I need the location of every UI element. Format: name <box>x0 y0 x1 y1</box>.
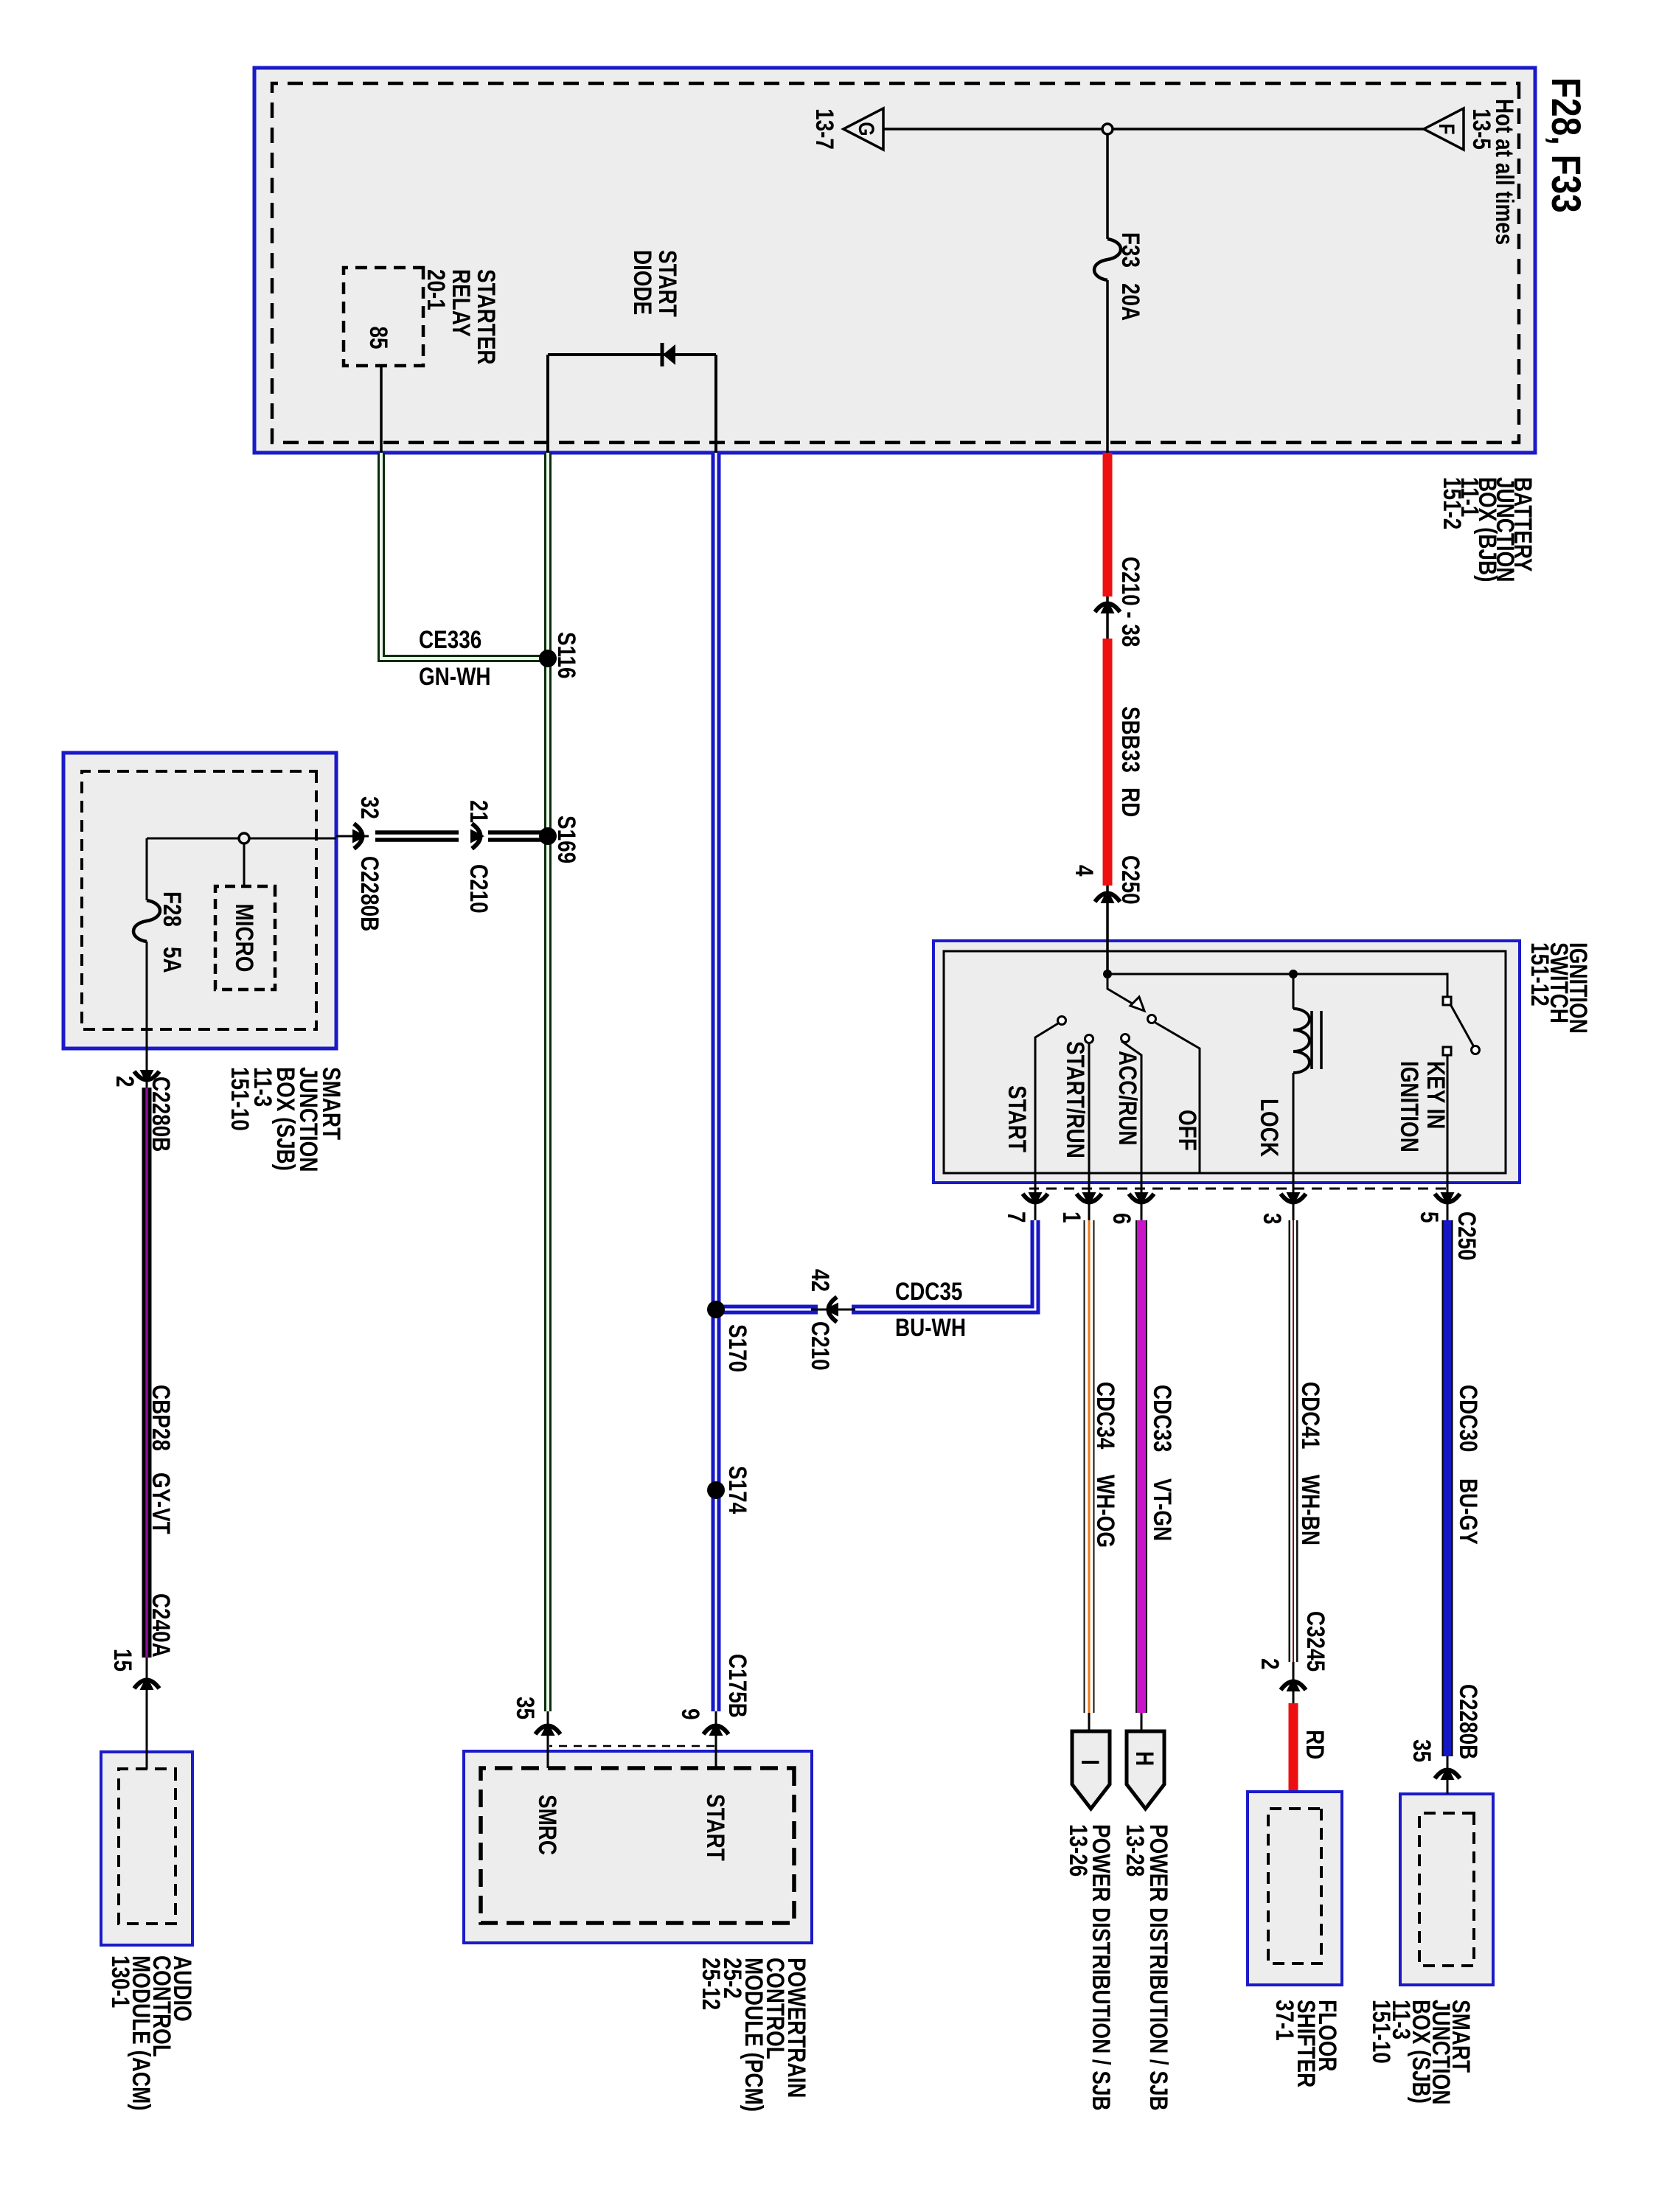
wire: junction to fuse F33 <box>1106 134 1109 239</box>
connector arrow pin 1 <box>1077 1192 1102 1206</box>
svg-text:5A: 5A <box>158 947 186 973</box>
lock coil <box>1293 974 1295 1009</box>
wire CDC41 WH-BN: ignition pin 3 to floor shifter <box>1289 1220 1298 1703</box>
off-page connector I <box>1072 1731 1110 1809</box>
svg-text:25-12: 25-12 <box>697 1958 725 2010</box>
wire: lock coil to pin 3 <box>1293 1073 1295 1220</box>
connector arrow 32 C2280B <box>352 824 366 849</box>
svg-text:START: START <box>653 250 681 317</box>
svg-text:15: 15 <box>108 1649 136 1672</box>
svg-text:IGNITION: IGNITION <box>1395 1061 1423 1152</box>
svg-text:CDC35: CDC35 <box>895 1277 962 1305</box>
svg-text:F28: F28 <box>158 891 186 927</box>
dashed connector boundary C175B at PCM <box>549 1745 714 1747</box>
connector arrow pin 2 C2280B <box>134 1070 159 1084</box>
svg-text:CDC41: CDC41 <box>1296 1382 1324 1449</box>
wire CDC33 VT-GN: ignition pin 6 to power distribution H <box>1135 1220 1147 1731</box>
label FLOOR SHIFTER 37-1 <box>1270 2000 1341 2087</box>
svg-text:C210: C210 <box>465 864 493 914</box>
label POWERTRAIN CONTROL MODULE (PCM) 25-2 25-12 <box>697 1958 810 2112</box>
svg-text:13-28: 13-28 <box>1121 1824 1149 1877</box>
wire CDC34 WH-OG: ignition pin 1 to power distribution I <box>1084 1220 1095 1731</box>
wire: starter relay pin 85 to BJB edge <box>380 366 383 453</box>
svg-text:C3245: C3245 <box>1301 1611 1329 1672</box>
svg-text:85: 85 <box>364 326 392 349</box>
svg-text:LOCK: LOCK <box>1255 1099 1283 1157</box>
svg-text:C2280B: C2280B <box>1454 1684 1482 1759</box>
connector C210 pin 42 on CDC35 <box>824 1297 838 1322</box>
svg-text:I: I <box>1076 1759 1104 1765</box>
svg-text:ACC/RUN: ACC/RUN <box>1113 1051 1141 1145</box>
connector arrow pin 3 <box>1281 1192 1306 1206</box>
svg-text:1: 1 <box>1057 1211 1085 1223</box>
switch wiper arm <box>1107 974 1138 1007</box>
svg-text:C175B: C175B <box>723 1654 751 1718</box>
svg-text:20-1: 20-1 <box>422 269 450 310</box>
svg-text:151-10: 151-10 <box>226 1067 254 1131</box>
svg-text:7: 7 <box>1002 1211 1030 1223</box>
connector C250 dashed boundary at ignition switch <box>1029 1188 1446 1190</box>
wire CE336 GN-WH: starter relay branch <box>381 453 548 658</box>
wire: START/RUN contact to pin 1 <box>1088 1044 1091 1220</box>
svg-text:35: 35 <box>511 1697 539 1719</box>
powertrain control module PCM box <box>464 1751 812 1943</box>
connector arrow 21 C210 <box>470 824 484 849</box>
fuse F28 5A <box>133 900 160 942</box>
start diode branch wires inside BJB <box>548 355 716 453</box>
svg-text:13-7: 13-7 <box>810 108 838 150</box>
contact START/RUN <box>1085 1035 1093 1043</box>
svg-text:START: START <box>701 1794 729 1861</box>
svg-text:3: 3 <box>1258 1213 1286 1225</box>
label STARTER RELAY 20-1 <box>422 269 500 365</box>
svg-text:42: 42 <box>806 1269 834 1292</box>
svg-text:4: 4 <box>1070 865 1098 877</box>
svg-text:WH-BN: WH-BN <box>1296 1475 1324 1545</box>
connector C250 pin 4 at ignition switch <box>1095 889 1120 903</box>
svg-text:GN-WH: GN-WH <box>419 662 491 690</box>
wire CBP28 GY-VT: SJB to ACM <box>142 1088 152 1769</box>
svg-text:F33: F33 <box>1116 232 1144 268</box>
svg-text:C240A: C240A <box>147 1593 175 1658</box>
svg-text:5: 5 <box>1415 1211 1443 1223</box>
svg-text:C250: C250 <box>1116 855 1144 905</box>
connector triangle F 13-5 <box>1424 108 1496 150</box>
svg-text:H: H <box>1130 1751 1158 1766</box>
svg-text:C250: C250 <box>1453 1211 1481 1261</box>
wire: junction to fuse F28 <box>146 838 148 900</box>
node S169 <box>539 827 557 845</box>
svg-text:151-10: 151-10 <box>1367 2000 1395 2064</box>
node S174 <box>707 1481 725 1499</box>
svg-text:SBB33: SBB33 <box>1116 706 1144 773</box>
svg-text:C2280B: C2280B <box>355 856 383 931</box>
smart junction box SJB (left, with micro) <box>63 753 336 1048</box>
label SMART JUNCTION BOX (SJB) 11-3 151-10 (right) <box>1367 2000 1475 2104</box>
wire: input bus from pin 4 junction up to KEY IN IGNITION <box>1107 974 1447 1001</box>
svg-text:6: 6 <box>1107 1213 1135 1225</box>
wire: START contact to pin 7 <box>1035 1023 1058 1220</box>
svg-text:S170: S170 <box>723 1324 751 1372</box>
node S116 <box>539 650 557 667</box>
label START DIODE <box>628 250 681 317</box>
floor shifter box <box>1248 1792 1342 1985</box>
svg-text:RD: RD <box>1301 1730 1329 1759</box>
svg-text:37-1: 37-1 <box>1270 2000 1298 2041</box>
svg-text:151-2: 151-2 <box>1438 477 1466 529</box>
contact OFF <box>1148 1015 1156 1023</box>
svg-text:RD: RD <box>1116 787 1144 817</box>
svg-text:WH-OG: WH-OG <box>1091 1475 1119 1548</box>
connector arrow pin 5 <box>1435 1192 1460 1206</box>
wire CDC30 BU-GY: ignition pin 5 to SJB <box>1442 1220 1453 1794</box>
battery junction box BJB <box>254 68 1535 453</box>
wire: key-in switch to pin 5 <box>1447 1055 1449 1220</box>
connector arrow PCM pin 9 <box>703 1722 728 1736</box>
audio control module ACM box <box>101 1752 192 1945</box>
wire RD: to floor shifter <box>1289 1703 1298 1790</box>
wire: OFF stub <box>1155 1023 1200 1173</box>
svg-text:CDC30: CDC30 <box>1454 1385 1482 1452</box>
svg-text:DIODE: DIODE <box>628 250 656 315</box>
label BATTERY JUNCTION BOX (BJB) 11-1 151-2 <box>1438 477 1537 582</box>
wire CDC35 BU-WH: BJB start diode to S170/S174 to PCM pin 9 <box>712 453 721 1768</box>
svg-text:OFF: OFF <box>1173 1110 1201 1151</box>
ignition switch box <box>933 941 1520 1183</box>
wire: ACC/RUN contact to pin 6 <box>1121 1041 1141 1220</box>
svg-text:13-5: 13-5 <box>1467 108 1495 150</box>
svg-text:C210 - 38: C210 - 38 <box>1116 557 1144 647</box>
contact ACC/RUN <box>1121 1034 1130 1043</box>
svg-text:2: 2 <box>111 1076 139 1088</box>
connector arrow pin 6 <box>1129 1192 1154 1206</box>
svg-text:START: START <box>1003 1085 1031 1152</box>
svg-text:20A: 20A <box>1116 283 1144 321</box>
svg-text:CE336: CE336 <box>419 625 481 653</box>
fuse F33 20A <box>1094 239 1121 280</box>
label AUDIO CONTROL MODULE (ACM) 130-1 <box>106 1955 196 2111</box>
svg-text:MICRO: MICRO <box>230 904 258 973</box>
svg-text:151-12: 151-12 <box>1526 942 1554 1006</box>
svg-text:G: G <box>854 122 879 136</box>
svg-text:21: 21 <box>465 800 493 823</box>
svg-text:GY-VT: GY-VT <box>147 1472 175 1534</box>
svg-text:130-1: 130-1 <box>106 1955 134 2008</box>
svg-text:VT-GN: VT-GN <box>1148 1478 1176 1541</box>
svg-text:STARTER: STARTER <box>472 269 500 365</box>
svg-text:S116: S116 <box>552 632 580 679</box>
svg-text:2: 2 <box>1256 1658 1284 1670</box>
wire: bus inside BJB from F triangle to G triangle <box>883 128 1424 131</box>
node: junction battery feed <box>1103 970 1112 978</box>
svg-text:C210: C210 <box>806 1321 834 1371</box>
svg-text:S169: S169 <box>552 815 580 863</box>
svg-text:32: 32 <box>355 796 383 819</box>
wire: fuse F28 to SJB pin 2 <box>146 942 148 1088</box>
svg-text:BU-GY: BU-GY <box>1454 1478 1482 1545</box>
node: SJB internal junction <box>239 833 249 844</box>
left SJB internals: feed line, junction, micro tap <box>147 838 336 840</box>
wire: fuse F33 to BJB edge <box>1106 280 1109 453</box>
node: junction at F33 tap <box>1102 124 1113 134</box>
svg-text:F28, F33: F28, F33 <box>1543 77 1589 213</box>
micro box inside SJB <box>215 886 275 990</box>
svg-text:F: F <box>1434 123 1459 134</box>
svg-text:SMRC: SMRC <box>533 1795 561 1855</box>
svg-text:RELAY: RELAY <box>447 269 475 337</box>
wire: SJB to S169 connector branch <box>336 832 547 840</box>
key in ignition switch <box>1443 997 1451 1005</box>
connector arrow pin 7 <box>1023 1192 1048 1206</box>
svg-text:CDC33: CDC33 <box>1148 1385 1176 1452</box>
svg-text:START/RUN: START/RUN <box>1061 1041 1089 1158</box>
wire SBB33 RD: BJB to ignition switch pin 4 <box>1103 453 1113 974</box>
svg-text:CDC34: CDC34 <box>1091 1382 1119 1450</box>
svg-text:9: 9 <box>676 1708 704 1720</box>
starter relay 20-1 box <box>344 268 423 366</box>
connector triangle G 13-7 <box>810 108 883 150</box>
node: junction lock coil tap <box>1289 970 1298 978</box>
wire CDC35 BU-WH: ignition pin 7 branch <box>720 1220 1035 1310</box>
contact START <box>1058 1017 1066 1025</box>
svg-text:35: 35 <box>1408 1739 1436 1762</box>
svg-text:KEY IN: KEY IN <box>1422 1061 1450 1129</box>
svg-text:CBP28: CBP28 <box>147 1385 175 1451</box>
start diode symbol <box>662 343 675 366</box>
wire CE336 GN-WH: BJB diode to S116/S169 to PCM pin 35 <box>544 453 552 1768</box>
svg-text:S174: S174 <box>723 1466 751 1514</box>
smart junction box SJB (right) <box>1400 1794 1493 1985</box>
connector arrow PCM pin 35 <box>535 1722 560 1736</box>
label IGNITION SWITCH 151-12 <box>1526 942 1592 1034</box>
svg-text:13-26: 13-26 <box>1064 1824 1092 1877</box>
svg-text:BU-WH: BU-WH <box>895 1313 966 1341</box>
label SMART JUNCTION BOX (SJB) 11-3 151-10 (left) <box>226 1067 345 1172</box>
off-page connector H <box>1127 1731 1164 1809</box>
connector C210 pin 38 on SBB33 <box>1095 599 1120 613</box>
node S170 <box>707 1301 725 1318</box>
